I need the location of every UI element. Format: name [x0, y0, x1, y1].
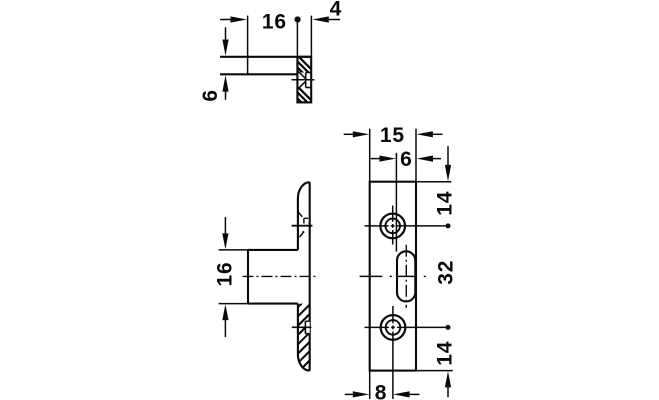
dim text 32 (rotated) [434, 260, 457, 285]
slot left edge extension line (for dim 6) [395, 153, 397, 252]
extension line right (plate outer face), x=311.4 [310, 16, 312, 57]
hatching, bar top zone [288, 46, 320, 96]
slot vertical centerline (dash-dot) [405, 245, 407, 308]
svg-text:6: 6 [199, 90, 222, 102]
dim 14 bottom: up arrow [445, 371, 451, 397]
dim text 15 [380, 124, 405, 147]
slot notch in bar section [306, 73, 312, 88]
rounded bottom end arc [298, 354, 310, 370]
hole H1 marks, side view: cone + notch + centerline [292, 212, 313, 237]
dim text 14 top (rotated) [433, 191, 456, 216]
hole H2 vertical centerline (extends below plate for dim 8) [392, 306, 394, 399]
extension line below plate left edge (dim 8) [369, 371, 371, 399]
dimension 6 arrows (vertical, top view) [222, 27, 228, 100]
part top edge, top view [220, 56, 311, 58]
dimension 4 arrow (pointing left) [312, 16, 340, 22]
top edge extension right (dim 14) [416, 181, 451, 183]
hole H1 vertical centerline [392, 206, 394, 245]
dim text 16 (top view) [262, 11, 287, 34]
svg-text:16: 16 [214, 262, 237, 287]
svg-text:4: 4 [330, 0, 342, 20]
hole H2 inner circle [386, 320, 401, 335]
centerline across bar, top view [292, 79, 315, 81]
dim text 14 bottom (rotated) [434, 341, 457, 366]
svg-text:16: 16 [262, 11, 287, 34]
svg-text:32: 32 [434, 260, 457, 285]
dim 14 top: down arrow [445, 146, 451, 181]
slot capsule [397, 251, 415, 301]
dim text 6 (rotated, top view) [199, 90, 222, 102]
hatching, side view bottom zone [292, 289, 316, 387]
hatching, bar bottom zone [288, 77, 320, 127]
dim 8: arrows outside, bottom [345, 391, 420, 397]
hole H2 outer circle [381, 315, 406, 340]
dim text 6 (front view) [400, 148, 412, 171]
tongue bottom edge, top view [220, 73, 298, 75]
hole H2 centerline, side view [292, 326, 312, 328]
extension lines for dim 16, side view [219, 250, 248, 304]
dim 16 arrows, side view [222, 217, 228, 337]
svg-text:14: 14 [434, 341, 457, 366]
hole H1 outer circle [380, 214, 405, 239]
dim text 8 [375, 381, 387, 400]
countersink cone lines, top view [298, 71, 305, 88]
plate outline, front view [370, 182, 416, 371]
plate cross-section bar outline, top view [297, 57, 311, 103]
dim 15: arrows outside [344, 131, 443, 137]
dim text 16 (rotated, side view) [214, 262, 237, 287]
dim text 4 [330, 0, 342, 20]
plate left face, lower segment [297, 304, 299, 355]
screw hole H2 notch (white) in side section [305, 321, 309, 333]
plate left face (front), upper segment [297, 198, 299, 250]
hole H1 inner circle [385, 219, 400, 234]
dimension point (dot) shared by 16 and 4 [295, 16, 301, 56]
tongue outline, side view [248, 250, 298, 304]
svg-text:15: 15 [380, 124, 405, 147]
svg-text:8: 8 [375, 381, 387, 400]
bottom edge extension right (dim 14) [416, 370, 453, 372]
tongue centerline (dash-dot), side view [243, 275, 316, 277]
hole H1 horizontal centerline with dot terminator [365, 223, 451, 228]
svg-text:6: 6 [400, 148, 412, 171]
hole H2 horizontal centerline with dot terminator [365, 325, 451, 330]
plate right face (back) [309, 182, 311, 371]
extension lines above plate (dims 15/6) [370, 129, 416, 182]
rounded top end arc [298, 182, 310, 198]
svg-text:14: 14 [433, 191, 456, 216]
dimension 16 line with left arrow [220, 16, 247, 22]
extension line left of dim 16 (tongue left edge), x=247.6 [247, 16, 249, 75]
plate mid centerline (dash-dot), front view [360, 275, 426, 277]
dim 6: arrows outside [371, 156, 441, 162]
